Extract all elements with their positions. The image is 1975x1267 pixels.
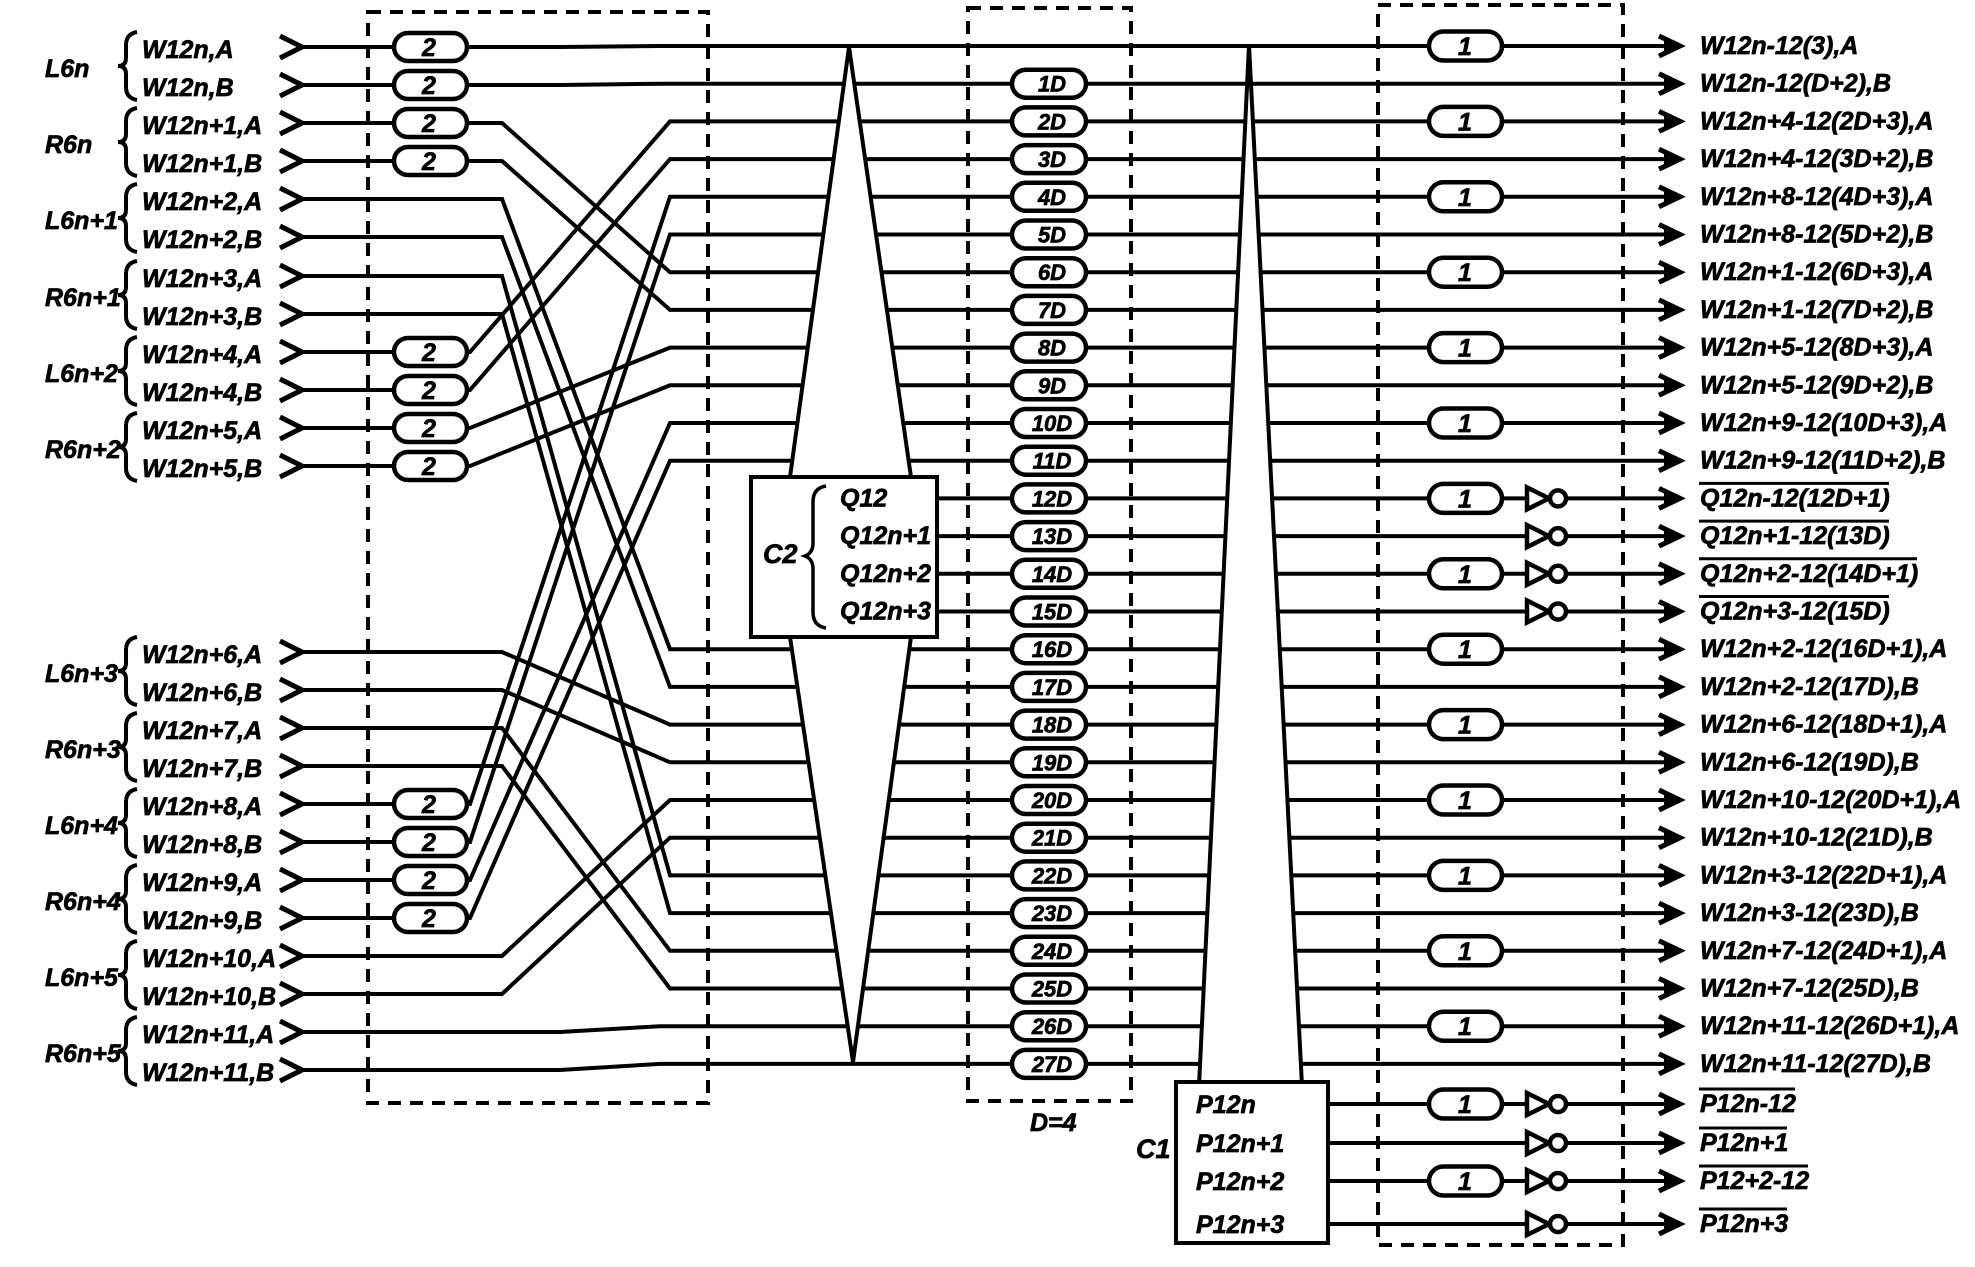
- svg-text:2: 2: [421, 377, 436, 405]
- svg-text:R6n+3: R6n+3: [45, 736, 121, 764]
- svg-text:2: 2: [421, 829, 436, 857]
- svg-text:R6n+2: R6n+2: [45, 436, 121, 464]
- svg-text:3D: 3D: [1038, 147, 1066, 172]
- svg-text:1: 1: [1458, 636, 1472, 664]
- svg-text:20D: 20D: [1031, 788, 1072, 813]
- svg-text:W12n+11-12(27D),B: W12n+11-12(27D),B: [1700, 1050, 1931, 1078]
- svg-text:1: 1: [1458, 712, 1472, 740]
- svg-text:W12n+8-12(5D+2),B: W12n+8-12(5D+2),B: [1700, 221, 1933, 249]
- svg-text:W12n+2-12(16D+1),A: W12n+2-12(16D+1),A: [1700, 635, 1947, 663]
- svg-text:17D: 17D: [1032, 675, 1072, 700]
- svg-text:W12n+10-12(20D+1),A: W12n+10-12(20D+1),A: [1700, 786, 1961, 814]
- svg-text:W12n+10,B: W12n+10,B: [142, 983, 276, 1011]
- svg-text:W12n+2,B: W12n+2,B: [142, 226, 262, 254]
- svg-text:15D: 15D: [1032, 600, 1072, 625]
- svg-text:18D: 18D: [1032, 713, 1072, 738]
- svg-text:26D: 26D: [1031, 1014, 1072, 1039]
- svg-text:L6n+1: L6n+1: [45, 207, 118, 235]
- svg-text:1: 1: [1458, 485, 1472, 513]
- svg-text:D=4: D=4: [1030, 1109, 1077, 1137]
- svg-text:16D: 16D: [1032, 637, 1072, 662]
- svg-text:W12n+5-12(9D+2),B: W12n+5-12(9D+2),B: [1700, 371, 1933, 399]
- svg-text:1: 1: [1458, 335, 1472, 363]
- svg-text:1: 1: [1458, 561, 1472, 589]
- svg-text:Q12n+1: Q12n+1: [840, 522, 931, 550]
- svg-text:P12n+1: P12n+1: [1700, 1129, 1788, 1157]
- svg-text:2: 2: [421, 110, 436, 138]
- svg-text:25D: 25D: [1031, 977, 1072, 1002]
- svg-text:2: 2: [421, 453, 436, 481]
- svg-text:W12n+6,A: W12n+6,A: [142, 641, 262, 669]
- svg-text:W12n+2-12(17D),B: W12n+2-12(17D),B: [1700, 673, 1919, 701]
- svg-text:W12n+11-12(26D+1),A: W12n+11-12(26D+1),A: [1700, 1012, 1959, 1040]
- svg-text:W12n+9-12(10D+3),A: W12n+9-12(10D+3),A: [1700, 409, 1947, 437]
- svg-text:2: 2: [421, 148, 436, 176]
- svg-text:R6n+5: R6n+5: [45, 1040, 122, 1068]
- svg-text:9D: 9D: [1038, 373, 1066, 398]
- svg-text:19D: 19D: [1032, 750, 1072, 775]
- svg-text:6D: 6D: [1038, 260, 1066, 285]
- svg-text:1: 1: [1458, 33, 1472, 61]
- svg-text:W12n+7,A: W12n+7,A: [142, 717, 262, 745]
- svg-text:W12n+7-12(24D+1),A: W12n+7-12(24D+1),A: [1700, 937, 1947, 965]
- svg-text:P12+2-12: P12+2-12: [1700, 1167, 1809, 1195]
- svg-text:W12n-12(D+2),B: W12n-12(D+2),B: [1700, 70, 1891, 98]
- svg-text:W12n,B: W12n,B: [142, 74, 234, 102]
- svg-text:R6n+4: R6n+4: [45, 888, 121, 916]
- svg-text:11D: 11D: [1033, 449, 1072, 474]
- svg-text:1: 1: [1458, 184, 1472, 212]
- svg-text:W12n+4-12(2D+3),A: W12n+4-12(2D+3),A: [1700, 107, 1933, 135]
- svg-text:P12n-12: P12n-12: [1700, 1090, 1796, 1118]
- svg-text:4D: 4D: [1037, 185, 1066, 210]
- svg-text:W12n+4,B: W12n+4,B: [142, 379, 262, 407]
- svg-text:23D: 23D: [1031, 901, 1072, 926]
- svg-text:13D: 13D: [1032, 524, 1072, 549]
- svg-text:W12n+11,A: W12n+11,A: [142, 1021, 274, 1049]
- svg-text:W12n+5-12(8D+3),A: W12n+5-12(8D+3),A: [1700, 334, 1933, 362]
- svg-text:Q12n+1-12(13D): Q12n+1-12(13D): [1700, 522, 1890, 550]
- svg-text:W12n+8,A: W12n+8,A: [142, 793, 262, 821]
- svg-text:2: 2: [421, 791, 436, 819]
- svg-text:L6n+4: L6n+4: [45, 812, 118, 840]
- svg-text:27D: 27D: [1031, 1052, 1072, 1077]
- svg-text:W12n+3-12(23D),B: W12n+3-12(23D),B: [1700, 899, 1919, 927]
- svg-text:8D: 8D: [1038, 336, 1066, 361]
- svg-text:1: 1: [1458, 108, 1472, 136]
- svg-text:C1: C1: [1136, 1134, 1171, 1164]
- svg-text:P12n: P12n: [1196, 1091, 1256, 1119]
- svg-text:W12n+3,A: W12n+3,A: [142, 265, 262, 293]
- svg-text:W12n+3,B: W12n+3,B: [142, 303, 262, 331]
- svg-text:P12n+3: P12n+3: [1196, 1211, 1284, 1239]
- svg-text:5D: 5D: [1038, 223, 1066, 248]
- svg-text:W12n+2,A: W12n+2,A: [142, 188, 262, 216]
- svg-text:22D: 22D: [1031, 863, 1072, 888]
- svg-text:Q12n+3-12(15D): Q12n+3-12(15D): [1700, 598, 1890, 626]
- svg-text:W12n+1-12(7D+2),B: W12n+1-12(7D+2),B: [1700, 296, 1933, 324]
- svg-text:W12n+10-12(21D),B: W12n+10-12(21D),B: [1700, 824, 1933, 852]
- svg-text:2: 2: [421, 415, 436, 443]
- svg-text:W12n+10,A: W12n+10,A: [142, 945, 276, 973]
- svg-text:Q12: Q12: [840, 484, 887, 512]
- svg-text:1: 1: [1458, 410, 1472, 438]
- svg-text:2: 2: [421, 72, 436, 100]
- svg-text:W12n+7-12(25D),B: W12n+7-12(25D),B: [1700, 975, 1919, 1003]
- svg-text:2: 2: [421, 905, 436, 933]
- svg-text:W12n+9,B: W12n+9,B: [142, 907, 262, 935]
- svg-text:W12n+7,B: W12n+7,B: [142, 755, 262, 783]
- svg-text:W12n+9,A: W12n+9,A: [142, 869, 262, 897]
- svg-text:W12n+6,B: W12n+6,B: [142, 679, 262, 707]
- svg-text:P12n+1: P12n+1: [1196, 1130, 1284, 1158]
- svg-text:1: 1: [1458, 787, 1472, 815]
- svg-text:2: 2: [421, 34, 436, 62]
- svg-text:W12n+9-12(11D+2),B: W12n+9-12(11D+2),B: [1700, 447, 1945, 475]
- svg-text:1: 1: [1458, 259, 1472, 287]
- svg-text:14D: 14D: [1032, 562, 1072, 587]
- svg-text:C2: C2: [763, 539, 798, 569]
- svg-text:Q12n+2: Q12n+2: [840, 560, 931, 588]
- svg-text:W12n-12(3),A: W12n-12(3),A: [1700, 32, 1858, 60]
- svg-text:W12n+6-12(19D),B: W12n+6-12(19D),B: [1700, 748, 1919, 776]
- svg-text:L6n+5: L6n+5: [45, 964, 119, 992]
- svg-text:L6n+2: L6n+2: [45, 360, 118, 388]
- svg-text:W12n+11,B: W12n+11,B: [142, 1059, 274, 1087]
- svg-text:Q12n-12(12D+1): Q12n-12(12D+1): [1700, 484, 1890, 512]
- svg-text:W12n+4,A: W12n+4,A: [142, 341, 262, 369]
- svg-text:W12n+8-12(4D+3),A: W12n+8-12(4D+3),A: [1700, 183, 1933, 211]
- svg-text:R6n+1: R6n+1: [45, 284, 121, 312]
- svg-text:W12n+1-12(6D+3),A: W12n+1-12(6D+3),A: [1700, 258, 1933, 286]
- svg-text:7D: 7D: [1038, 298, 1066, 323]
- svg-text:W12n+4-12(3D+2),B: W12n+4-12(3D+2),B: [1700, 145, 1933, 173]
- svg-text:2D: 2D: [1037, 109, 1066, 134]
- svg-text:1: 1: [1458, 1013, 1472, 1041]
- svg-text:W12n+5,B: W12n+5,B: [142, 455, 262, 483]
- svg-text:21D: 21D: [1031, 826, 1072, 851]
- svg-text:1: 1: [1458, 1091, 1472, 1119]
- svg-text:P12n+3: P12n+3: [1700, 1210, 1788, 1238]
- svg-text:Q12n+3: Q12n+3: [840, 598, 931, 626]
- svg-text:1: 1: [1458, 862, 1472, 890]
- svg-text:2: 2: [421, 867, 436, 895]
- svg-text:1: 1: [1458, 938, 1472, 966]
- svg-text:12D: 12D: [1032, 486, 1072, 511]
- svg-text:W12n+3-12(22D+1),A: W12n+3-12(22D+1),A: [1700, 861, 1947, 889]
- svg-text:1: 1: [1458, 1168, 1472, 1196]
- svg-text:W12n+5,A: W12n+5,A: [142, 417, 262, 445]
- svg-text:Q12n+2-12(14D+1): Q12n+2-12(14D+1): [1700, 560, 1918, 588]
- svg-text:P12n+2: P12n+2: [1196, 1168, 1284, 1196]
- svg-text:10D: 10D: [1032, 411, 1072, 436]
- svg-text:W12n+1,A: W12n+1,A: [142, 112, 262, 140]
- svg-text:L6n: L6n: [45, 55, 89, 83]
- svg-text:W12n+8,B: W12n+8,B: [142, 831, 262, 859]
- svg-text:W12n+1,B: W12n+1,B: [142, 150, 262, 178]
- svg-text:R6n: R6n: [45, 131, 92, 159]
- svg-text:L6n+3: L6n+3: [45, 660, 118, 688]
- svg-text:2: 2: [421, 339, 436, 367]
- svg-text:24D: 24D: [1031, 939, 1072, 964]
- svg-text:1D: 1D: [1038, 72, 1066, 97]
- svg-text:W12n+6-12(18D+1),A: W12n+6-12(18D+1),A: [1700, 711, 1947, 739]
- svg-text:W12n,A: W12n,A: [142, 36, 234, 64]
